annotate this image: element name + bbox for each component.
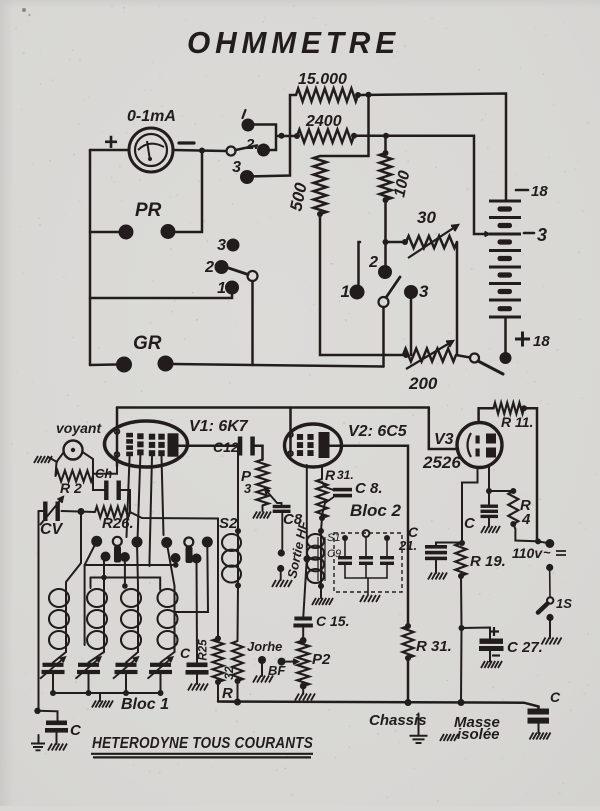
resistor R31a bbox=[317, 479, 328, 518]
wire lamp left bbox=[56, 453, 64, 477]
contact K1 bbox=[91, 536, 102, 547]
wire switch to ground bbox=[549, 621, 551, 639]
svg-text:30: 30 bbox=[417, 208, 436, 227]
svg-text:C12: C12 bbox=[213, 439, 239, 455]
wire tee to rheo 30 bbox=[386, 241, 405, 244]
label +18 bbox=[515, 332, 530, 347]
contact K6 bbox=[171, 553, 181, 563]
wire heater bus bbox=[117, 406, 429, 409]
svg-text:C: C bbox=[550, 689, 561, 705]
node S2 top bbox=[235, 528, 241, 534]
tube V1 grid bar1 bbox=[126, 433, 133, 438]
node R200 left tee bbox=[403, 352, 409, 358]
label -18 bbox=[516, 189, 528, 192]
wire V2 pin down bbox=[306, 465, 308, 559]
wire C15 to P2 bbox=[302, 628, 304, 641]
label minus bbox=[179, 141, 194, 144]
resistor R11 bbox=[494, 403, 525, 414]
svg-text:110v: 110v bbox=[512, 545, 543, 561]
svg-text:3: 3 bbox=[217, 237, 226, 254]
wire C21 ground bbox=[435, 560, 437, 573]
svg-text:R26.: R26. bbox=[102, 515, 134, 532]
svg-text:18: 18 bbox=[533, 333, 550, 350]
node C-R4 bbox=[486, 488, 492, 494]
wire bypass vertical bbox=[84, 565, 86, 645]
node R500 bottom bbox=[317, 211, 323, 217]
tube V2 anode bbox=[319, 432, 330, 458]
svg-text:P2: P2 bbox=[312, 651, 331, 668]
svg-text:200: 200 bbox=[408, 374, 438, 393]
jack sortie b bbox=[277, 565, 284, 572]
wire to terminal bbox=[538, 541, 547, 542]
svg-text:voyant: voyant bbox=[56, 420, 102, 436]
node R15000 right b bbox=[366, 92, 372, 98]
wire node to C21 bbox=[436, 543, 462, 546]
contact S3-2 bbox=[378, 265, 392, 279]
wire CT2 to bus bbox=[88, 674, 90, 693]
contact S3-3 bbox=[404, 285, 418, 299]
wire meter right to switch S1 pivot bbox=[173, 150, 226, 151]
node BF wiper bbox=[278, 658, 286, 666]
wire K1 to crossbar bbox=[85, 541, 97, 565]
contact S2-3 bbox=[227, 239, 240, 252]
wire S3 pivot down to common bbox=[382, 307, 385, 367]
node R19 bottom bbox=[458, 573, 464, 579]
switch S4 lever bbox=[478, 361, 503, 374]
wire V1 pin1 down bbox=[93, 466, 117, 474]
jack GR right bbox=[158, 356, 174, 372]
ground C left-bottom bbox=[48, 744, 67, 751]
capacitor C left-bottom bbox=[46, 721, 67, 726]
wire bloc2 bottoms bbox=[345, 577, 387, 579]
node meter-right bbox=[199, 148, 205, 154]
ground Jorhe bbox=[253, 676, 273, 683]
wire P2 ground bbox=[302, 686, 304, 694]
resistor R19 bbox=[455, 543, 466, 576]
node R2400 right bbox=[351, 133, 357, 139]
switch band lever B bbox=[186, 547, 193, 564]
node bracket bbox=[279, 133, 285, 139]
wire left rail to GR left bbox=[90, 363, 116, 366]
wire S1-3 to R 15000 left bbox=[247, 95, 296, 177]
svg-text:1: 1 bbox=[341, 282, 350, 301]
svg-text:V1: 6K7: V1: 6K7 bbox=[189, 418, 249, 435]
svg-text:3: 3 bbox=[244, 481, 252, 496]
ground chassis bbox=[418, 714, 420, 736]
capacitor Cv3 bbox=[481, 505, 499, 508]
tube V2 grid bar1 bbox=[297, 434, 303, 440]
node left rail bottom bbox=[34, 708, 40, 714]
pin V1 heater b bbox=[115, 452, 120, 457]
wire 15000b down to R500 top bbox=[320, 95, 369, 156]
svg-text:C 8.: C 8. bbox=[355, 480, 383, 497]
wire 2400 row to -3 tap bbox=[354, 136, 487, 234]
svg-text:R: R bbox=[222, 685, 233, 702]
switch S3 lever bbox=[386, 277, 400, 298]
svg-text:15.000: 15.000 bbox=[298, 71, 347, 88]
node R11 right bbox=[521, 405, 527, 411]
svg-text:OHMMETRE: OHMMETRE bbox=[187, 25, 400, 60]
contact K5 bbox=[101, 552, 111, 562]
tube V2 grid bar2 bbox=[307, 434, 313, 440]
node bus masse bbox=[458, 699, 465, 706]
title underline bbox=[91, 754, 313, 758]
wire C8b top lead bbox=[322, 482, 333, 490]
coil L4 bbox=[174, 586, 176, 652]
svg-text:2.: 2. bbox=[245, 136, 259, 153]
node R31b top bbox=[405, 623, 411, 629]
terminal switch top bbox=[546, 564, 553, 571]
wire V2 anode to R31b bbox=[330, 446, 409, 626]
svg-text:3: 3 bbox=[232, 159, 241, 176]
wire tee to bus bbox=[460, 628, 463, 703]
wire L2 to trimmer bbox=[89, 652, 105, 663]
wire K2 to coil3 bbox=[137, 542, 138, 586]
switch S2 lever bbox=[229, 268, 249, 275]
svg-text:C: C bbox=[180, 645, 191, 661]
node crossbar A right bbox=[173, 562, 179, 568]
svg-text:R 19.: R 19. bbox=[470, 553, 506, 570]
wire S1-1 and S1-2 bracket bbox=[248, 125, 297, 151]
pin V1 heater a bbox=[115, 429, 120, 434]
capacitor CV bbox=[43, 502, 47, 522]
svg-text:C: C bbox=[464, 515, 476, 532]
capacitor C12 bbox=[238, 437, 243, 456]
wire V1 grid pins down bbox=[127, 456, 164, 567]
wire C8 down to sortie jacks bbox=[281, 513, 283, 549]
node rheo30 left bbox=[402, 239, 408, 245]
contact S3-1 bbox=[350, 285, 365, 300]
wire meter left to left rail bbox=[90, 149, 129, 152]
wire V1 anode to C12 bbox=[179, 445, 240, 448]
wire L3 to trimmer bbox=[126, 652, 138, 663]
wire K7 stub bbox=[196, 559, 199, 663]
capacitor C8b bbox=[333, 488, 352, 492]
jack PR right bbox=[161, 224, 176, 239]
trimmer bloc2 2 bbox=[359, 556, 373, 559]
svg-text:S2: S2 bbox=[219, 515, 238, 532]
wire bus drop into V1 bbox=[116, 408, 119, 467]
ground P3 bbox=[253, 512, 271, 519]
svg-text:Bloc 2: Bloc 2 bbox=[350, 501, 402, 520]
wire S2 top bbox=[237, 446, 239, 531]
box Bloc2 bbox=[334, 533, 402, 592]
pin V2 heater a bbox=[288, 432, 293, 437]
wire bus drop into V2 bbox=[289, 408, 292, 456]
trimmer CT2 bbox=[78, 663, 99, 667]
svg-text:isolée: isolée bbox=[457, 726, 500, 743]
tube V1 anode bbox=[168, 433, 179, 456]
capacitor CV arrow bbox=[40, 497, 63, 525]
capacitor C27 plus plate bbox=[480, 639, 504, 644]
node bus left end bbox=[234, 699, 241, 706]
trimmer bloc2 3 bbox=[380, 556, 394, 559]
battery B1 18V bbox=[489, 200, 521, 203]
wire R32 to bus bbox=[237, 681, 239, 702]
wire crossbar B stub bbox=[90, 578, 92, 589]
wire bus elbow to V3 bbox=[429, 408, 458, 450]
coil S1 core bbox=[318, 536, 325, 581]
node R32 bottom bbox=[235, 678, 241, 684]
node R19 top bbox=[459, 540, 465, 546]
jack PR left bbox=[119, 225, 134, 240]
svg-text:~: ~ bbox=[543, 545, 551, 560]
meter M1 0-1mA bbox=[129, 128, 173, 172]
wire rheo30 right rail bbox=[456, 242, 459, 355]
wire chassis bus bbox=[218, 702, 539, 709]
wire C to ground bbox=[196, 674, 198, 684]
wire sortie b ground bbox=[280, 572, 282, 580]
wire 2400 row to R100 bbox=[384, 136, 387, 153]
wire S2 bottom to R32 top bbox=[237, 586, 240, 642]
coil L1 bbox=[65, 586, 67, 652]
svg-text:32: 32 bbox=[222, 666, 236, 680]
arrow -3 tap bbox=[481, 233, 489, 235]
wire left rail vertical bbox=[89, 150, 92, 365]
wire V2 pin to R31a bbox=[321, 466, 323, 479]
node R31b bottom bbox=[405, 655, 411, 661]
svg-text:V2: 6C5: V2: 6C5 bbox=[348, 423, 408, 440]
wire GR right to common bbox=[173, 364, 384, 367]
jack Jorhe bbox=[258, 656, 266, 664]
wire switch link bbox=[549, 570, 551, 598]
wire CV to node bbox=[62, 511, 96, 512]
resistor 15.000 bbox=[296, 89, 358, 102]
node rheo30 tee bbox=[383, 239, 389, 245]
svg-text:HETERODYNE TOUS COURANTS: HETERODYNE TOUS COURANTS bbox=[92, 735, 313, 752]
wire S1 ground bbox=[320, 586, 322, 598]
svg-text:0-1mA: 0-1mA bbox=[127, 108, 176, 125]
wire C27 ground bbox=[489, 651, 491, 662]
terminal 110v bbox=[545, 539, 554, 548]
potentiometer P2 bbox=[297, 640, 309, 686]
ground bloc2 bbox=[360, 595, 380, 602]
svg-text:R25: R25 bbox=[198, 639, 210, 661]
wire S2-1 to left rail bbox=[90, 288, 232, 299]
node R31a bottom bbox=[319, 515, 325, 521]
wire bus ground stub bbox=[99, 693, 101, 701]
wire crossbar A bbox=[85, 564, 176, 566]
svg-text:CV: CV bbox=[40, 521, 64, 538]
coil S1 bbox=[320, 531, 322, 586]
contact S1-1 bbox=[242, 119, 255, 132]
wire Cv3 ground bbox=[488, 519, 490, 527]
wire P3 wiper to C8 bbox=[277, 503, 282, 505]
node bus R31b bbox=[405, 699, 412, 706]
switch band lever A bbox=[114, 546, 121, 563]
svg-text:3: 3 bbox=[537, 225, 547, 245]
wire bloc2 ground stub bbox=[367, 578, 369, 595]
wire R25 bottom to bus bbox=[218, 682, 238, 702]
wire R31b to bus bbox=[407, 658, 410, 703]
node R100 top bbox=[383, 150, 389, 156]
ground C bloc1 bbox=[188, 684, 208, 691]
wire left edge rail bbox=[39, 510, 45, 512]
pin V2 heater b bbox=[288, 451, 293, 456]
wire left rail to PR left jack bbox=[90, 231, 119, 234]
node bus 4 bbox=[158, 690, 164, 696]
svg-text:PR: PR bbox=[135, 200, 162, 221]
switch band pivot A bbox=[113, 537, 122, 546]
node R100 bottom bbox=[383, 197, 389, 203]
wire node to capacitor C-left bbox=[38, 711, 58, 721]
capacitor C right-bottom bbox=[528, 709, 550, 715]
trimmer CT3 bbox=[116, 663, 137, 667]
wire K3 to coil4 bbox=[167, 543, 175, 587]
node sortie tap bbox=[303, 556, 310, 563]
resistor R32 bbox=[232, 641, 243, 681]
svg-text:1S: 1S bbox=[556, 596, 572, 611]
terminal switch bottom bbox=[546, 614, 553, 621]
arrow P3 wiper bbox=[265, 489, 277, 503]
node crossbar B bbox=[101, 575, 107, 581]
svg-text:V3: V3 bbox=[434, 431, 454, 448]
tube V2 6C5 envelope bbox=[285, 424, 342, 467]
ground bloc1 bbox=[92, 701, 113, 708]
node P2 top bbox=[300, 637, 307, 644]
contact K3 bbox=[161, 537, 172, 548]
wire R500 bottom to R200 left bbox=[320, 214, 403, 355]
svg-text:C 27.: C 27. bbox=[507, 639, 543, 656]
wire S2 pivot to common rail bbox=[251, 281, 254, 365]
svg-text:1: 1 bbox=[217, 280, 226, 297]
contact S2-2 bbox=[215, 260, 229, 274]
capacitor C21 bbox=[425, 545, 447, 549]
wire node to R4 bbox=[489, 490, 513, 492]
arrow BF wiper to P2 bbox=[285, 661, 298, 663]
contact S1-2 bbox=[257, 144, 270, 157]
ground left rail bbox=[31, 744, 45, 751]
capacitor C27 minus plate bbox=[479, 646, 504, 651]
svg-text:2400: 2400 bbox=[305, 113, 342, 130]
rheostat 200 arrow bbox=[406, 341, 453, 369]
rheostat 200 bbox=[403, 349, 456, 362]
node R25 top bbox=[215, 636, 221, 642]
node bus 3 bbox=[123, 690, 129, 696]
wire R19 down bbox=[460, 576, 463, 628]
wire K6 drop bbox=[175, 558, 177, 565]
resistor 100 bbox=[380, 153, 392, 200]
switch S3 pivot bbox=[379, 297, 389, 307]
svg-text:2: 2 bbox=[368, 254, 378, 271]
wire C to ground bbox=[56, 733, 58, 745]
svg-text:R 11.: R 11. bbox=[501, 414, 533, 430]
contact K7 bbox=[192, 554, 202, 564]
svg-text:3: 3 bbox=[419, 282, 429, 301]
contact K2 bbox=[132, 537, 143, 548]
trimmer bloc2 1 bbox=[338, 556, 352, 559]
svg-text:2: 2 bbox=[204, 259, 214, 276]
svg-text:4: 4 bbox=[521, 511, 531, 528]
coil L3 bbox=[137, 586, 139, 652]
switch S2 pivot bbox=[248, 271, 258, 281]
node S1 top bbox=[318, 528, 324, 534]
contact S2-1 bbox=[225, 281, 239, 295]
ground S1 bbox=[312, 598, 333, 605]
switch S1 pivot bbox=[227, 147, 236, 156]
wire bloc1 bus bbox=[53, 692, 161, 694]
wire lamp right bbox=[83, 452, 105, 490]
svg-text:R 31.: R 31. bbox=[416, 638, 452, 655]
tube V1 6K7 envelope bbox=[105, 421, 188, 467]
wire R11 to 110v bbox=[524, 408, 537, 541]
label C27 plus bbox=[489, 627, 499, 636]
wire K5 to coil2 bbox=[103, 557, 105, 586]
resistor R26 bbox=[95, 507, 130, 518]
ground lamp bbox=[34, 456, 52, 463]
tube V3 grid a bbox=[476, 436, 480, 444]
tube V3 grid b bbox=[476, 449, 480, 457]
wire R31a to S1 bbox=[321, 518, 322, 531]
svg-text:C 15.: C 15. bbox=[316, 613, 349, 629]
wire node to coil1 bbox=[66, 512, 81, 587]
wire tee left down to contact S3-1 bbox=[359, 242, 361, 284]
ground C21 bbox=[428, 573, 447, 580]
tube V1 grid bar3 bbox=[149, 434, 155, 440]
svg-text:Bloc 1: Bloc 1 bbox=[121, 696, 169, 713]
node R2400 left bbox=[294, 133, 300, 139]
wire R4 to 110v node bbox=[513, 524, 536, 541]
wire K8 drop bbox=[124, 557, 126, 586]
node bus 2 bbox=[86, 690, 92, 696]
jack GR left bbox=[116, 357, 132, 373]
wire tee to C27 bbox=[462, 628, 491, 639]
capacitor C15 bbox=[294, 617, 312, 621]
svg-text:R: R bbox=[325, 467, 336, 483]
wire CT1 to bus bbox=[52, 674, 54, 693]
ground P1S bbox=[542, 638, 562, 645]
resistor R4 bbox=[508, 491, 518, 524]
contact K4 bbox=[202, 537, 213, 548]
resistor R31b bbox=[403, 626, 414, 658]
node S1 bottom bbox=[318, 583, 324, 589]
resistor 500 bbox=[314, 156, 327, 214]
resistor R25 bbox=[213, 639, 224, 683]
tube V3 anode a bbox=[486, 434, 496, 444]
switch S4 pivot bbox=[470, 354, 479, 363]
ground sortie bbox=[272, 580, 292, 587]
tube V3 25Z6 envelope bbox=[457, 423, 502, 468]
tube V1 grid bar2 bbox=[137, 433, 143, 439]
lamp voyant bbox=[64, 441, 83, 460]
contact K8 bbox=[120, 552, 130, 562]
trimmer CT4 bbox=[150, 663, 171, 667]
svg-text:18: 18 bbox=[531, 183, 548, 200]
wire rheo200 to S4 bbox=[456, 355, 470, 358]
tube V1 grid bar4 bbox=[158, 434, 164, 440]
ground masse bbox=[440, 734, 458, 741]
switch S1 lever bbox=[236, 146, 258, 151]
resistor R2 bbox=[56, 471, 94, 482]
node K8 drop end bbox=[122, 583, 128, 589]
ground C right-bottom bbox=[530, 733, 551, 740]
node R4 top bbox=[510, 488, 516, 494]
wire C8b bottom lead bbox=[322, 498, 333, 516]
node R25 bottom bbox=[215, 679, 221, 685]
trimmer CT1 bbox=[43, 663, 64, 667]
resistor 2400 bbox=[297, 130, 354, 143]
svg-text:2526: 2526 bbox=[422, 453, 461, 472]
tube V3 cathode hook bbox=[468, 433, 472, 457]
switch P1S lever bbox=[538, 604, 548, 613]
label -3 bbox=[524, 232, 534, 235]
node 100 top hang bbox=[383, 133, 389, 139]
node CV-R26 bbox=[78, 508, 85, 515]
wire CT3 to bus bbox=[125, 674, 127, 693]
node R15000 right a bbox=[355, 92, 361, 98]
svg-text:21.: 21. bbox=[398, 538, 417, 553]
label C27 minus bbox=[492, 654, 500, 656]
